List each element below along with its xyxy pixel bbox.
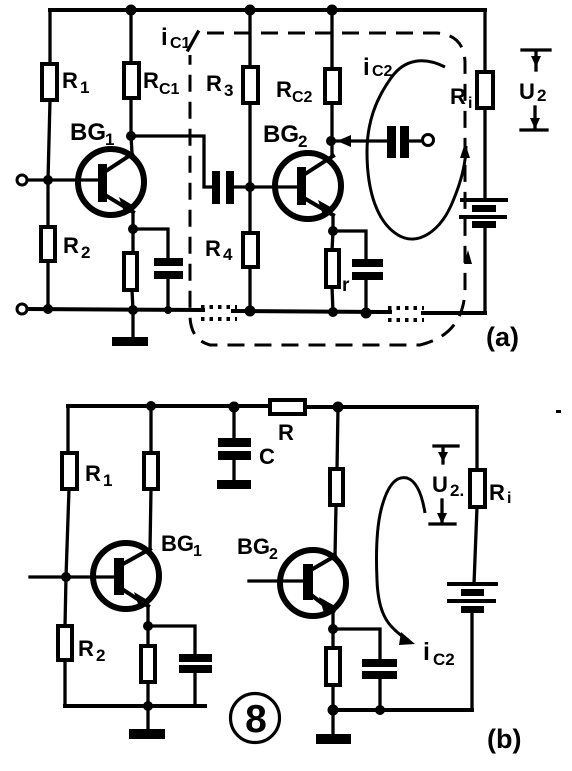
resistor R (series, horizontal) <box>270 400 305 445</box>
resistor: collector resistor 2 (b, unlabeled) <box>330 469 343 505</box>
wire: BG2 base lead (b) <box>249 579 304 582</box>
node: ground stub junction <box>128 305 138 315</box>
resistor RC2 <box>276 69 340 106</box>
svg-text:2: 2 <box>537 86 546 105</box>
node: R4 bottom junction <box>245 306 256 317</box>
resistor: emitter resistor 2 (unlabeled) <box>326 250 339 287</box>
node: BG2 base junction <box>245 182 255 192</box>
label u2 (b) with arrows <box>430 446 464 524</box>
resistor: collector resistor 1 (b, unlabeled) <box>144 453 158 489</box>
node: bypass cap 1 bottom junction <box>164 306 172 314</box>
svg-text:R: R <box>205 236 221 261</box>
resistor R2 (b) <box>58 626 105 665</box>
wire: battery to bottom (b) <box>470 613 473 710</box>
svg-text:(a): (a) <box>486 322 519 352</box>
wire: emitter resistor 2 to bottom rail <box>332 287 333 312</box>
wire: base node to R2 (b) <box>65 577 66 627</box>
label (b) <box>487 724 521 754</box>
ground bar under C (b) <box>217 480 251 489</box>
battery (b) <box>449 584 496 613</box>
wire: left rail to R2 <box>46 180 49 228</box>
battery <box>461 200 506 228</box>
node: emitter2 bottom junction (b) <box>328 705 339 716</box>
svg-text:r: r <box>342 275 350 296</box>
wire: R2 to bottom wire (b) <box>63 660 66 706</box>
wire: top supply rail <box>50 8 485 12</box>
label u2 (a) with arrows <box>519 50 550 130</box>
svg-text:BG: BG <box>161 531 194 556</box>
svg-text:1: 1 <box>105 130 114 149</box>
resistor Ri (b) <box>470 470 511 507</box>
wire: R1 bottom to base node <box>48 100 50 180</box>
svg-text:R: R <box>278 420 294 445</box>
node: emitter2 resistor bottom junction <box>328 307 338 317</box>
terminal: output <box>423 135 434 146</box>
wire: BG1 emitter down (b) <box>146 606 149 626</box>
wire: collector resistor 1 to BG1 collector (b) <box>150 489 151 550</box>
figure number 8 (circled) <box>231 694 280 743</box>
svg-text:BG: BG <box>70 119 106 146</box>
wire: bottom rail segment 2 <box>233 311 390 312</box>
wire: bottom rail segment 1 <box>28 309 203 310</box>
node: top rail junction collector res 2 (b) <box>333 402 344 413</box>
terminal: input upper <box>17 175 27 185</box>
terminal: input lower <box>17 304 27 314</box>
capacitor: coupling cap C1 stage link <box>212 171 234 204</box>
svg-text:2.: 2. <box>450 481 464 500</box>
wire: R4 to bottom rail <box>248 267 251 311</box>
resistor: emitter resistor 1 (unlabeled) <box>124 253 137 290</box>
resistor R4 <box>205 233 258 267</box>
wire: output cap to terminal <box>409 139 422 142</box>
wire: collector resistor 2 to BG2 collector (b) <box>335 505 336 557</box>
svg-text:1: 1 <box>193 543 202 560</box>
wire: left rail (b) top <box>66 406 69 454</box>
wire: battery to bottom rail <box>483 228 486 313</box>
resistor: emitter resistor 2 (b, unlabeled) <box>326 648 340 685</box>
wire: emitter resistor 1 to bottom rail <box>132 290 133 310</box>
wire: left rail upper (top rail to R1) <box>48 10 51 65</box>
wire: base2 node to R4 <box>248 187 251 234</box>
label (a) <box>486 322 519 352</box>
svg-text:R: R <box>62 68 78 93</box>
transistor BG1 <box>70 119 144 215</box>
svg-text:3: 3 <box>224 81 233 100</box>
node: bottom-left rail junction <box>43 304 53 314</box>
svg-text:C2: C2 <box>372 63 393 80</box>
node: BG1 base junction <box>43 175 53 185</box>
wire: top rail (b) right of R <box>305 405 477 409</box>
wire: Ri to battery (b) <box>474 507 477 584</box>
svg-text:2: 2 <box>298 132 307 151</box>
svg-text:i: i <box>363 54 370 81</box>
speck <box>556 410 561 413</box>
wire: emitter1 to bypass cap 1 (b) <box>148 626 195 655</box>
svg-text:i: i <box>161 24 168 51</box>
svg-text:C2: C2 <box>292 89 313 106</box>
wire: Ri to battery <box>483 108 486 198</box>
wire: bypass cap 2 to bottom (b) <box>378 679 381 710</box>
wire: BG1 emitter down <box>131 212 134 229</box>
node: emitter1 junction (b) <box>143 621 153 631</box>
transistor BG2 (b) <box>237 534 346 616</box>
wire: emitter resistor 1 to bottom (b) <box>146 682 149 706</box>
svg-text:2: 2 <box>81 243 90 262</box>
wire: rail to capacitor C (b) <box>232 407 235 439</box>
svg-text:U: U <box>519 79 535 104</box>
wire: R3 bottom to base2 node <box>248 103 251 187</box>
svg-text:R: R <box>85 461 101 486</box>
dashed feedback loop ic1 <box>161 24 472 345</box>
ground <box>112 310 148 346</box>
dotted link box 1 on bottom rail <box>201 307 237 319</box>
svg-text:8: 8 <box>245 698 267 741</box>
wire: emitter resistor 2 to bottom (b) <box>331 685 334 710</box>
svg-text:C1: C1 <box>159 81 180 98</box>
svg-text:U: U <box>432 472 448 497</box>
svg-text:2: 2 <box>96 646 105 665</box>
dotted link box 2 on bottom rail <box>388 308 424 320</box>
svg-text:1: 1 <box>103 471 112 490</box>
svg-text:BG: BG <box>263 121 299 148</box>
wire: bypass cap 1 to bottom (b) <box>193 673 196 706</box>
svg-text:R: R <box>63 233 79 258</box>
resistor R2 <box>41 227 90 262</box>
resistor Ri <box>450 10 493 112</box>
svg-text:4: 4 <box>223 245 233 264</box>
wire: right rail top (b) <box>475 407 478 471</box>
node: R3 top rail junction <box>245 5 256 16</box>
resistor R1 (b) <box>62 453 112 490</box>
node: BG1 collector junction <box>126 131 136 141</box>
wire: coupling cap to BG2 base <box>234 185 298 188</box>
capacitor: bypass cap 1 <box>154 258 183 279</box>
wire: rail to RC1 <box>129 10 132 64</box>
wire: collector node to coupling cap (L shape) <box>131 136 213 187</box>
resistor: emitter resistor 1 (b, unlabeled) <box>141 646 155 682</box>
wire: bypass cap 1 to bottom rail <box>166 279 169 310</box>
resistor R1 <box>42 64 89 100</box>
wire: collector2 to output cap (with arrow toward collector) <box>335 135 388 147</box>
resistor RC1 <box>124 63 180 98</box>
svg-text:R: R <box>489 480 505 505</box>
wire: BG1 base lead (b) <box>30 575 115 578</box>
node: RC1 top rail junction <box>126 5 137 16</box>
capacitor C (b) <box>218 438 275 469</box>
node: emitter1 junction <box>128 224 138 234</box>
wire: rail to R3 <box>248 10 251 68</box>
transistor BG2 <box>263 121 341 219</box>
node: BG2 collector junction (small circle) <box>327 137 335 145</box>
svg-text:2: 2 <box>269 546 278 563</box>
node: emitter2 junction (b) <box>328 624 338 634</box>
wire: collector2 node into BG2 <box>330 144 333 156</box>
wire: bottom wire (b) <box>65 704 205 708</box>
wire: RC2 bottom to collector2 node <box>330 103 333 137</box>
svg-text:C: C <box>259 444 275 469</box>
wire: bottom wire (b) right segment <box>331 708 472 712</box>
wire: emitter2 to bypass cap 2 (b) <box>333 629 380 660</box>
wire: top rail (b) left of R <box>68 404 270 408</box>
svg-text:R: R <box>78 636 94 661</box>
capacitor: bypass cap 2 (b) <box>362 659 397 679</box>
wire: rail to RC2 <box>330 10 333 70</box>
wire: emitter2 to emitter resistor 2 (b) <box>331 629 334 649</box>
node: top rail junction collector res 1 (b) <box>146 401 156 411</box>
svg-text:1: 1 <box>80 78 89 97</box>
wire: rail to collector resistor 2 (b) <box>337 407 338 470</box>
svg-text:i: i <box>468 95 472 112</box>
svg-text:R: R <box>276 77 292 102</box>
wire: collector node down into BG1 <box>131 136 132 153</box>
capacitor: bypass cap 2 <box>342 259 383 296</box>
svg-text:(b): (b) <box>487 724 521 754</box>
svg-text:BG: BG <box>237 534 270 559</box>
node: BG1 base junction (b) <box>61 572 71 582</box>
capacitor: output coupling cap <box>387 126 409 158</box>
current loop ic2 (b) with arrow <box>377 478 455 669</box>
svg-text:C2: C2 <box>433 650 455 669</box>
wire: rail to collector resistor 1 (b) <box>149 406 152 454</box>
svg-text:i: i <box>507 490 511 507</box>
transistor BG1 (b) <box>93 531 202 609</box>
wire: emitter node to emitter resistor 1 <box>131 229 134 254</box>
wire: emitter2 node to emitter resistor 2 <box>332 231 333 251</box>
wire: emitter1 to emitter resistor 1 (b) <box>146 626 149 647</box>
node: emitter2 junction <box>328 226 338 236</box>
wire: bottom rail segment 3 <box>423 311 485 315</box>
wire: BG2 emitter down (b) <box>331 612 334 629</box>
node: top rail junction for C (b) <box>229 402 240 413</box>
capacitor: bypass cap 1 (b) <box>179 654 212 673</box>
wire: RC1 bottom to collector node <box>129 98 132 136</box>
wire: C to its ground bar (b) <box>232 459 235 481</box>
node: ground1 junction (b) <box>143 701 153 711</box>
wire: bypass cap 2 to bottom rail <box>364 280 367 313</box>
node: RC2 top rail junction <box>327 5 338 16</box>
wire: input to BG1 base <box>28 178 99 181</box>
wire: emitter node to bypass cap 1 <box>133 229 168 259</box>
ground 2 (b) <box>316 710 351 744</box>
svg-text:R: R <box>206 71 222 96</box>
node: cap2 bottom junction (b) <box>375 705 385 715</box>
wire: emitter2 node to bypass cap 2 <box>333 231 366 259</box>
wire: BG2 emitter down <box>331 215 334 231</box>
resistor R3 <box>206 67 258 103</box>
node: bypass cap 2 bottom junction <box>361 308 372 319</box>
wire: R2 bottom to bottom rail <box>46 261 49 309</box>
current loop ic2 (a) with arrow <box>363 54 470 239</box>
svg-text:R: R <box>143 68 159 93</box>
svg-text:i: i <box>423 638 430 666</box>
ground 1 (b) <box>129 706 165 739</box>
wire: R1 to base node (b) <box>66 489 69 577</box>
